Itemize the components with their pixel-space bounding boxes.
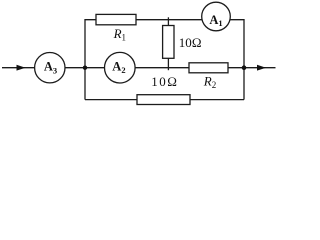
wire middle rail A3 to A2 [65, 67, 105, 69]
resistor R1 [96, 14, 136, 24]
wire bottom rail right [190, 99, 244, 101]
ammeter A1 [202, 2, 231, 31]
resistor 10ohm bottom [137, 95, 190, 105]
arrow output current [257, 65, 266, 71]
wire stub vertical resistor to middle rail [167, 58, 169, 70]
node junction left [83, 66, 87, 70]
ammeter A3 [35, 52, 65, 82]
resistor R2 [189, 63, 228, 73]
wire A1 right to right vertical [230, 20, 244, 100]
wire stub top rail to vertical resistor [167, 17, 169, 25]
node junction right [242, 65, 247, 70]
ammeter A2 [105, 52, 136, 83]
wire R2 to output lead [228, 67, 276, 69]
wire left vertical branch [85, 20, 96, 100]
svg-text:R1: R1 [113, 26, 126, 43]
wire input lead [2, 67, 35, 69]
wire top rail R1 to A1 [136, 19, 202, 21]
svg-text:R2: R2 [203, 73, 216, 90]
resistor 10ohm vertical [163, 26, 174, 59]
wire middle rail A2 to R2 [135, 67, 189, 69]
arrow input current [17, 65, 26, 71]
svg-text:10Ω: 10Ω [179, 35, 202, 50]
svg-text:10Ω: 10Ω [151, 74, 178, 89]
wire bottom rail left [85, 99, 137, 101]
